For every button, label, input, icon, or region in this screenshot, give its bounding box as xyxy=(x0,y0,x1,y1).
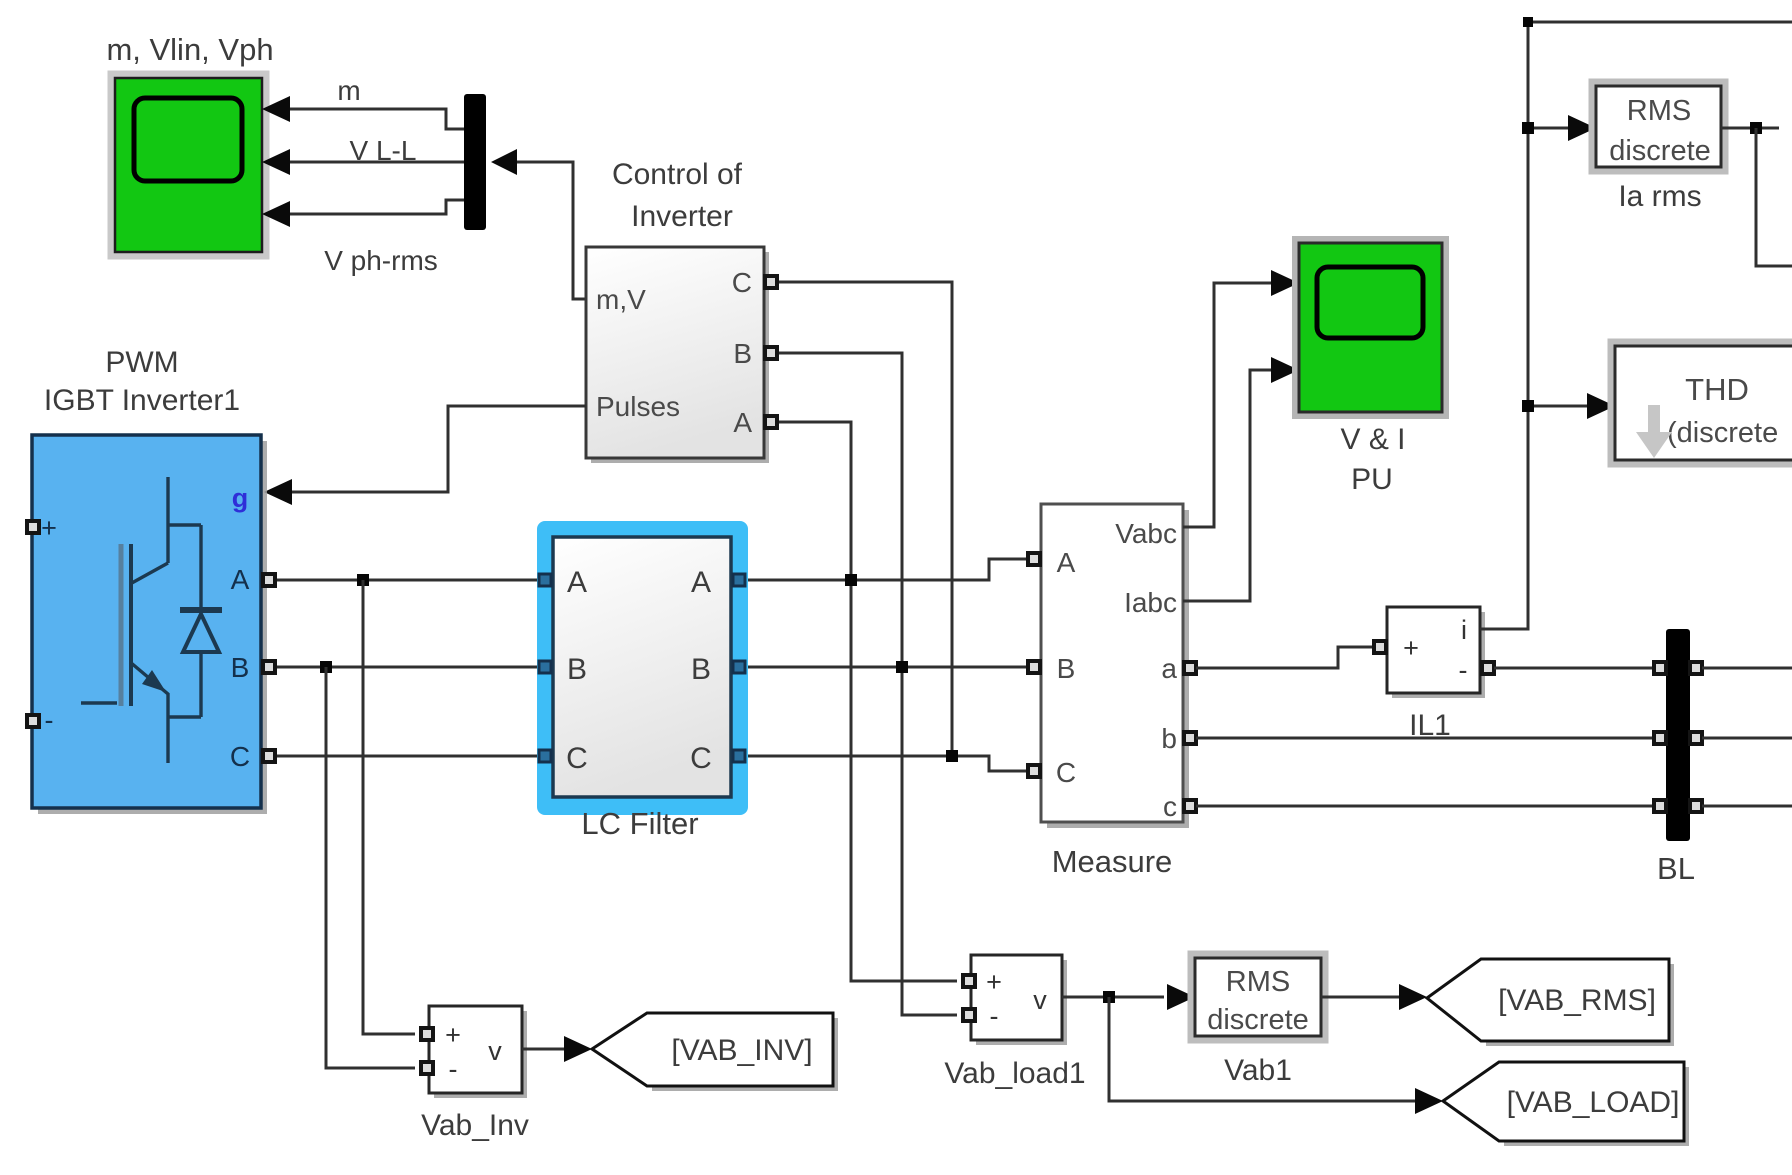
wire Measure b to BL bar xyxy=(1196,737,1654,740)
svg-text:V L-L: V L-L xyxy=(350,135,417,166)
subsystem LC Filter (selected, cyan highlight) xyxy=(537,521,748,815)
svg-text:A: A xyxy=(733,407,752,438)
svg-text:RMS: RMS xyxy=(1226,966,1290,998)
svg-text:b: b xyxy=(1161,723,1177,754)
svg-text:Control of: Control of xyxy=(612,158,743,191)
svg-text:A: A xyxy=(231,564,250,595)
scope Scope1 (m, Vlin, Vph) xyxy=(111,74,266,256)
goto tag VAB_LOAD xyxy=(1443,1062,1689,1146)
current measurement IL1 xyxy=(1387,607,1485,698)
svg-text:-: - xyxy=(449,1054,458,1084)
wire Measure c to BL bar xyxy=(1196,805,1654,808)
svg-text:PU: PU xyxy=(1351,463,1393,496)
port square BL left c xyxy=(1654,800,1666,812)
junction on phase A to Vab_Inv plus xyxy=(357,574,369,586)
wire phase B junction down to Vab_Inv minus xyxy=(326,667,415,1068)
svg-text:C: C xyxy=(566,742,588,775)
wire Pulses to PWM inverter g input xyxy=(290,406,586,492)
bus bar BL xyxy=(1666,629,1690,841)
goto tag VAB_RMS xyxy=(1427,959,1674,1046)
arrowhead on IGBT emitter xyxy=(142,670,166,692)
port square IL1 plus xyxy=(1374,641,1386,653)
svg-text:V ph-rms: V ph-rms xyxy=(324,245,438,276)
block RMS discrete (Vab1) xyxy=(1191,954,1325,1040)
svg-text:g: g xyxy=(232,483,249,513)
port square Measure in B xyxy=(1028,661,1040,673)
svg-text:-: - xyxy=(990,1001,999,1031)
svg-text:Iabc: Iabc xyxy=(1124,587,1177,618)
svg-text:PWM: PWM xyxy=(105,346,178,379)
gray arrow glyph on THD block xyxy=(1636,405,1672,458)
wire Control A down to phase A line and Vab_load1 plus xyxy=(779,422,957,981)
svg-text:-: - xyxy=(45,705,54,735)
svg-text:-: - xyxy=(1459,655,1468,685)
port square Measure out b xyxy=(1184,732,1196,744)
svg-text:Vab1: Vab1 xyxy=(1224,1054,1292,1087)
arrow into Scope1 in2 xyxy=(262,149,290,175)
junction on i line at RMS input xyxy=(1522,122,1534,134)
corner dot top line xyxy=(1523,17,1533,27)
wire phase A: PWM A to LC Filter A xyxy=(277,579,538,582)
svg-text:a: a xyxy=(1161,653,1177,684)
arrow into demux input xyxy=(491,149,517,175)
wire RMS output down then right to edge xyxy=(1756,128,1792,266)
port square BL left b xyxy=(1654,732,1666,744)
port square BL right b xyxy=(1690,732,1702,744)
junction RMS output xyxy=(1750,122,1762,134)
voltage measurement Vab_Inv xyxy=(429,1006,527,1098)
wire phase C: PWM C to LC Filter C xyxy=(277,755,538,758)
wire into THD xyxy=(1534,405,1587,408)
arrow into V&I PU input2 xyxy=(1271,357,1299,383)
wire BL b to right edge xyxy=(1702,737,1792,740)
wire LC out C to Measure C xyxy=(748,756,1028,771)
port square LC in B xyxy=(539,661,551,673)
svg-text:Inverter: Inverter xyxy=(631,200,733,233)
arrow into goto VAB_INV xyxy=(564,1036,592,1062)
port square Vab_load1 minus xyxy=(963,1009,975,1021)
svg-text:Ia rms: Ia rms xyxy=(1618,180,1701,213)
scope V & I PU xyxy=(1295,239,1446,416)
port square BL right c xyxy=(1690,800,1702,812)
port square Control out A xyxy=(765,416,777,428)
svg-text:C: C xyxy=(732,267,752,298)
svg-text:Pulses: Pulses xyxy=(596,391,680,422)
arrow into Scope1 in3 xyxy=(262,201,290,227)
port square Control out B xyxy=(765,347,777,359)
svg-text:c: c xyxy=(1163,791,1177,822)
port square LC in A xyxy=(539,574,551,586)
IGBT and diode icon inside PWM block xyxy=(81,477,222,763)
svg-text:(discrete: (discrete xyxy=(1667,417,1778,449)
svg-text:+: + xyxy=(986,967,1002,997)
svg-text:IGBT Inverter1: IGBT Inverter1 xyxy=(44,384,240,417)
block THD (discrete) xyxy=(1611,342,1792,464)
arrow into RMS Vab1 xyxy=(1167,984,1195,1010)
svg-text:Vabc: Vabc xyxy=(1115,518,1177,549)
wire phase B: PWM B to LC Filter B xyxy=(277,666,538,669)
block PWM IGBT Inverter1 xyxy=(32,435,267,814)
wire Control B down to phase B line and Vab_load1 minus xyxy=(779,353,957,1015)
svg-text:LC Filter: LC Filter xyxy=(581,806,698,841)
arrow into goto VAB_RMS xyxy=(1399,984,1427,1010)
svg-text:[VAB_RMS]: [VAB_RMS] xyxy=(1498,984,1656,1017)
wire Measure a to IL1 plus xyxy=(1196,647,1380,668)
arrow into RMS (Ia rms) xyxy=(1568,115,1596,141)
svg-text:B: B xyxy=(567,653,587,686)
svg-text:[VAB_INV]: [VAB_INV] xyxy=(671,1034,812,1067)
svg-text:B: B xyxy=(231,652,250,683)
port square IL1 minus xyxy=(1482,662,1494,674)
svg-text:BL: BL xyxy=(1657,851,1695,886)
wire Vab_Inv v to goto VAB_INV xyxy=(522,1048,564,1051)
arrow into g input of PWM inverter xyxy=(264,479,292,505)
svg-text:v: v xyxy=(488,1036,502,1066)
junction phase C with Control C tap xyxy=(946,750,958,762)
svg-text:C: C xyxy=(230,741,250,772)
port square Control out C xyxy=(765,276,777,288)
wire m: demux out1 to Scope1 in1 xyxy=(288,109,464,129)
svg-text:m, Vlin, Vph: m, Vlin, Vph xyxy=(106,32,273,67)
wire LC out B to Measure B xyxy=(748,666,1028,669)
arrow into V&I PU input1 xyxy=(1271,270,1299,296)
svg-text:A: A xyxy=(691,566,711,599)
svg-text:discrete: discrete xyxy=(1609,135,1711,167)
port square Vab_load1 plus xyxy=(963,975,975,987)
wire Measure Vabc to V&I PU scope input1 xyxy=(1183,283,1273,527)
svg-text:B: B xyxy=(691,653,711,686)
svg-text:m: m xyxy=(337,75,360,106)
wire BL a to right edge xyxy=(1702,667,1792,670)
junction on i line at THD input xyxy=(1522,400,1534,412)
port square PWM plus xyxy=(27,521,39,533)
svg-text:C: C xyxy=(690,742,712,775)
svg-text:THD: THD xyxy=(1685,372,1749,407)
svg-text:A: A xyxy=(567,566,587,599)
svg-text:v: v xyxy=(1033,985,1047,1015)
port square BL right a xyxy=(1690,662,1702,674)
voltage measurement Vab_load1 xyxy=(971,955,1067,1045)
wire RMS Vab1 output to goto VAB_RMS xyxy=(1321,996,1399,999)
port square PWM out A xyxy=(263,574,275,586)
svg-text:discrete: discrete xyxy=(1207,1004,1309,1036)
arrow into Scope1 in1 xyxy=(262,96,290,122)
port square LC out B xyxy=(733,661,745,673)
svg-text:Vab_Inv: Vab_Inv xyxy=(421,1109,529,1142)
demux Demux1 (black bar) xyxy=(464,94,486,230)
svg-text:Measure: Measure xyxy=(1052,844,1173,879)
svg-text:A: A xyxy=(1057,547,1076,578)
block RMS discrete (Ia rms) xyxy=(1592,82,1725,171)
port square BL left a xyxy=(1654,662,1666,674)
subsystem Control of Inverter xyxy=(586,247,769,463)
svg-text:B: B xyxy=(733,338,752,369)
port square Vab_Inv plus xyxy=(421,1028,433,1040)
svg-text:C: C xyxy=(1056,757,1076,788)
port square Measure out c xyxy=(1184,800,1196,812)
wire phase A junction down to Vab_Inv plus xyxy=(363,580,415,1034)
port square LC out A xyxy=(733,574,745,586)
port square Vab_Inv minus xyxy=(421,1062,433,1074)
port square PWM minus xyxy=(27,715,39,727)
port square Measure in A xyxy=(1028,553,1040,565)
svg-text:B: B xyxy=(1057,653,1076,684)
wire RMS output right and down to edge xyxy=(1721,127,1779,130)
svg-text:RMS: RMS xyxy=(1627,95,1691,127)
junction phase A with Control A tap xyxy=(845,574,857,586)
wire BL c to right edge xyxy=(1702,805,1792,808)
svg-text:[VAB_LOAD]: [VAB_LOAD] xyxy=(1507,1086,1680,1119)
wire IL1 i output up to RMS and THD taps xyxy=(1480,22,1792,629)
svg-text:i: i xyxy=(1461,615,1467,645)
wire into RMS (Ia rms) xyxy=(1534,127,1568,130)
svg-text:+: + xyxy=(445,1020,461,1050)
goto tag VAB_INV xyxy=(592,1013,838,1091)
wire V ph-rms: demux out3 to Scope1 in3 xyxy=(288,200,464,214)
wire junction down to goto VAB_LOAD xyxy=(1109,997,1415,1101)
svg-text:Vab_load1: Vab_load1 xyxy=(944,1057,1085,1090)
port square Measure out a xyxy=(1184,662,1196,674)
junction Vab_load1 output xyxy=(1103,991,1115,1003)
wire Vab_load1 v output to RMS Vab1 xyxy=(1062,996,1164,999)
wire Control C down to phase C line xyxy=(779,282,952,756)
svg-text:+: + xyxy=(1403,633,1419,663)
junction phase B with Control B tap xyxy=(896,661,908,673)
svg-text:+: + xyxy=(41,513,57,543)
port square LC out C xyxy=(733,750,745,762)
port square PWM out B xyxy=(263,661,275,673)
arrow into goto VAB_LOAD xyxy=(1415,1088,1443,1114)
svg-text:m,V: m,V xyxy=(596,284,646,315)
wire from Control m,V to demux xyxy=(517,162,586,299)
wire LC out A to Measure A xyxy=(748,559,1028,580)
junction on phase B to Vab_Inv minus xyxy=(320,661,332,673)
port square Measure in C xyxy=(1028,765,1040,777)
arrow into THD xyxy=(1587,393,1615,419)
wire V L-L: demux out2 to Scope1 in2 xyxy=(288,161,464,164)
svg-text:V & I: V & I xyxy=(1340,423,1405,456)
subsystem Measure xyxy=(1041,504,1189,828)
port square LC in C xyxy=(539,750,551,762)
wire Measure Iabc to V&I PU scope input2 xyxy=(1183,370,1273,601)
port square PWM out C xyxy=(263,750,275,762)
wire IL1 minus to BL bar xyxy=(1494,667,1654,670)
